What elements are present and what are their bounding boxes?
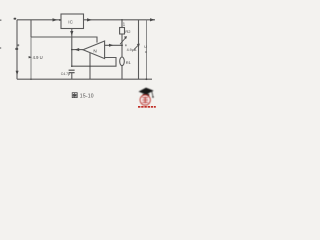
junction IC left pin <box>59 19 61 21</box>
wire output rail V146 <box>145 20 147 79</box>
wire IC bottom to node <box>71 29 73 67</box>
wire right rail V138 <box>138 20 140 79</box>
wire left rail <box>16 20 18 79</box>
IC U1 <box>61 14 84 29</box>
caption 图 15-10 <box>72 93 94 100</box>
svg-text:4.9μA: 4.9μA <box>127 48 137 52</box>
arrow op-amp out left <box>75 48 80 51</box>
svg-text:4.9 U: 4.9 U <box>33 55 43 60</box>
wire op-amp output <box>72 49 83 51</box>
arrow input right <box>109 44 114 47</box>
svg-text:o: o <box>145 50 147 54</box>
current arrow on V138 <box>134 44 140 50</box>
arrow left rail down <box>16 71 19 76</box>
wire op-amp input upper <box>105 44 122 46</box>
wire divider rail V31 <box>30 20 32 37</box>
wire op-amp ground leg V90 <box>89 53 91 79</box>
corner mark top-left <box>14 18 17 20</box>
junction bottom rail nodes <box>89 66 90 67</box>
arrow out of IC right <box>87 18 92 21</box>
logo seal <box>140 95 150 105</box>
arrow IC bottom down <box>70 31 73 36</box>
resistor R2 <box>120 28 125 35</box>
capacitor C plates <box>69 70 75 73</box>
logo graduation cap <box>139 88 154 98</box>
blob on left rail <box>15 48 18 50</box>
arrow into IC left <box>53 18 58 21</box>
svg-text:N: N <box>93 48 96 53</box>
svg-text:R1: R1 <box>126 60 132 65</box>
junction divider tap <box>121 44 123 46</box>
svg-text:R2: R2 <box>125 29 131 34</box>
wire H37 adj line <box>31 37 97 43</box>
wire divider rail V122 <box>121 20 123 79</box>
wire bottom rail <box>17 78 152 80</box>
svg-text:IC: IC <box>68 19 73 24</box>
logo web text <box>138 106 156 108</box>
pot wiper arrow on R2 <box>120 36 127 44</box>
speck left edge <box>0 19 1 48</box>
op-amp N <box>83 41 105 59</box>
arrow terminal right end <box>150 18 155 21</box>
junction op-amp out <box>71 49 73 51</box>
junction node C <box>71 65 73 67</box>
label arrow 4.9U <box>29 56 32 58</box>
wire feedback loop <box>72 58 116 67</box>
wire top rail <box>17 19 61 21</box>
resistor R1 <box>120 57 125 66</box>
svg-text:C4.7μ: C4.7μ <box>61 72 70 76</box>
junction top wire J122 <box>121 19 123 21</box>
svg-text:15-10: 15-10 <box>80 94 94 100</box>
svg-text:U: U <box>144 45 147 49</box>
